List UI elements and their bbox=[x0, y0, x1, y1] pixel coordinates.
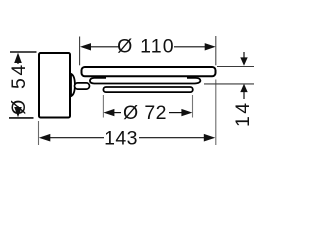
cone flange bbox=[71, 74, 75, 96]
holder ring bar3 bbox=[103, 87, 192, 92]
extension line O110 left bbox=[79, 37, 81, 66]
tick O54 top bbox=[10, 51, 37, 53]
extension line 14 top bbox=[217, 66, 254, 68]
stem bbox=[75, 83, 90, 89]
svg-text:Ø 110: Ø 110 bbox=[117, 35, 175, 57]
tick O54 bottom bbox=[9, 117, 34, 119]
svg-text:14: 14 bbox=[232, 101, 254, 128]
extension line right shared O110/143 upper bbox=[215, 36, 217, 65]
svg-text:Ø 72: Ø 72 bbox=[123, 102, 167, 124]
dimension O110 bbox=[80, 35, 216, 57]
dimension O54 bbox=[8, 53, 30, 118]
dish lower lens bar2 bbox=[90, 78, 200, 84]
dish rim bbox=[82, 67, 216, 76]
extension line 14 bottom bbox=[204, 83, 254, 85]
extension line O72 right bbox=[192, 95, 194, 118]
wall plate bbox=[39, 53, 70, 118]
extension line right shared lower bbox=[215, 80, 217, 146]
svg-text:143: 143 bbox=[104, 128, 138, 150]
dimension O72 bbox=[103, 102, 192, 124]
svg-text:Ø 54: Ø 54 bbox=[8, 62, 30, 115]
extension line 143 left bbox=[38, 121, 40, 145]
extension line O72 left bbox=[102, 95, 104, 118]
dimension 143 bbox=[39, 128, 216, 150]
dimension 14 bbox=[232, 52, 254, 127]
